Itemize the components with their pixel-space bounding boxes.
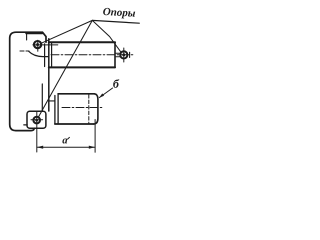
dimension line a (37, 146, 95, 148)
lower cylinder left cap lines (55, 94, 58, 124)
pin end tick (129, 52, 131, 57)
upper pad hidden line (20, 50, 29, 52)
dimension label a (62, 138, 67, 143)
arrowhead for b leader (99, 93, 104, 97)
lower support circle (33, 117, 40, 124)
upper support circle centerlines (33, 40, 58, 51)
lower cylinder bracket connector (49, 100, 55, 102)
leader to lower support (39, 20, 93, 116)
plate right edge upper segment (44, 44, 46, 67)
dimension arrow right (89, 146, 95, 149)
lower cylinder bottom edge (55, 123, 94, 125)
bracket mounting edge (48, 39, 50, 111)
lower boss shoulder (24, 124, 27, 126)
upper cylinder top edge (49, 41, 115, 43)
lower cylinder axis centerline (62, 107, 103, 109)
upper pad left edge (26, 33, 28, 40)
accent tick on a (68, 137, 70, 139)
lower cylinder hidden line (88, 95, 90, 124)
leader to pin support (92, 20, 121, 52)
upper cylinder axis centerline (51, 54, 134, 56)
right extension line (94, 120, 96, 153)
pin support circle (120, 51, 127, 58)
pin vertical centerline (123, 48, 125, 62)
label Opory (103, 8, 135, 19)
label underline (92, 20, 139, 23)
lower support vertical centerline and extension line (36, 112, 38, 152)
upper cylinder left cap line (51, 42, 53, 67)
upper cylinder right face (114, 42, 116, 67)
pin center dot (122, 53, 125, 56)
lower cylinder top edge (58, 93, 94, 95)
dimension arrow left (37, 146, 43, 149)
leader to upper support (41, 20, 92, 43)
upper support circle (34, 41, 41, 48)
plate outline (10, 32, 46, 130)
mounting pad top thick overlay (26, 33, 42, 35)
upper pad bottom contour (29, 51, 49, 56)
upper cylinder bottom edge (49, 66, 115, 68)
plate right edge lower segment (41, 84, 43, 111)
lower support center dot (35, 119, 38, 122)
upper support center dot (36, 43, 39, 46)
pin shaft stubs (116, 53, 120, 57)
lower cylinder right cap (94, 94, 98, 124)
lower boss pad (27, 111, 46, 128)
lower support circle horizontal centerline (31, 119, 43, 121)
leader for b (99, 88, 112, 98)
label b (113, 79, 119, 88)
